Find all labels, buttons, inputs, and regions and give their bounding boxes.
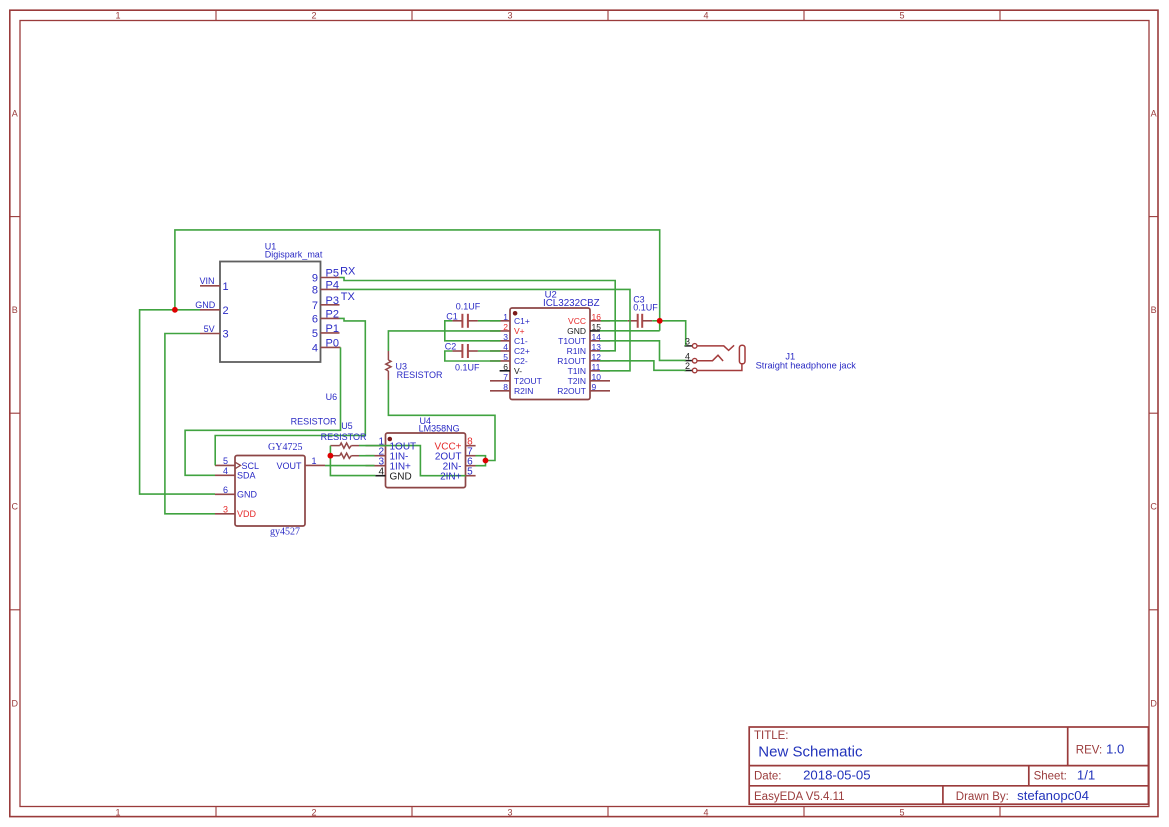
junction U4 2OUT/2IN- feedback — [483, 458, 489, 464]
GY4725 pins — [215, 465, 325, 513]
svg-text:5: 5 — [503, 352, 508, 362]
U3 symbol — [386, 351, 391, 380]
svg-text:1: 1 — [115, 807, 120, 817]
svg-text:B: B — [1151, 305, 1157, 315]
svg-text:3: 3 — [507, 807, 512, 817]
svg-text:V-: V- — [514, 366, 522, 376]
svg-text:VOUT: VOUT — [276, 461, 302, 471]
svg-text:C1+: C1+ — [514, 316, 530, 326]
svg-text:B: B — [12, 305, 18, 315]
svg-text:4: 4 — [503, 342, 508, 352]
svg-text:5: 5 — [223, 456, 228, 466]
U4 pins — [366, 446, 476, 476]
svg-text:5: 5 — [312, 328, 318, 340]
J1 tip — [739, 345, 745, 364]
svg-text:6: 6 — [312, 313, 318, 325]
wire U2 pin15 GND to vertical — [600, 330, 660, 332]
svg-text:V+: V+ — [514, 326, 525, 336]
pin 6 V- black stub — [500, 370, 510, 372]
svg-text:Straight headphone jack: Straight headphone jack — [756, 361, 857, 371]
svg-text:4: 4 — [312, 342, 318, 354]
U6 symbol — [330, 443, 359, 448]
svg-text:P3: P3 — [326, 295, 339, 307]
svg-text:VCC: VCC — [568, 316, 586, 326]
U4 reference designator and part name — [419, 416, 460, 433]
IC GY4725 — [215, 442, 325, 538]
svg-text:1OUT: 1OUT — [390, 441, 417, 452]
U2 reference designator and part name — [543, 289, 600, 309]
svg-text:RESISTOR: RESISTOR — [397, 370, 443, 380]
svg-text:GND: GND — [390, 471, 412, 482]
wire U6 right lead through U4 to 2IN+ pin5 — [359, 446, 466, 476]
svg-text:16: 16 — [592, 312, 602, 322]
U2 pins — [490, 321, 610, 391]
IC U2 ICL3232CBZ — [490, 289, 610, 399]
svg-text:8: 8 — [503, 382, 508, 392]
wire RX: U1 pin9 to U2 R1IN — [340, 278, 616, 351]
svg-text:A: A — [12, 109, 18, 119]
svg-text:ICL3232CBZ: ICL3232CBZ — [543, 298, 600, 309]
svg-text:4: 4 — [378, 467, 384, 478]
svg-text:P2: P2 — [326, 308, 339, 320]
svg-text:12: 12 — [592, 352, 602, 362]
U1 pins 1,2,3 (VIN,GND,5V) and 9,8,7,6,5,4 (P5,P4,P3,P2,P1,P0) — [200, 278, 341, 348]
svg-text:GND: GND — [567, 326, 586, 336]
svg-text:VIN: VIN — [199, 276, 214, 286]
junction U5/U6 node — [328, 453, 334, 459]
svg-text:5: 5 — [899, 10, 904, 20]
svg-text:U5: U5 — [341, 421, 353, 431]
svg-text:1: 1 — [503, 312, 508, 322]
svg-text:T2IN: T2IN — [568, 376, 586, 386]
svg-text:P0: P0 — [326, 337, 339, 349]
svg-text:T2OUT: T2OUT — [514, 376, 542, 386]
svg-text:GND: GND — [237, 490, 258, 500]
svg-text:8: 8 — [312, 284, 318, 296]
svg-text:15: 15 — [592, 322, 602, 332]
svg-text:C2-: C2- — [514, 356, 528, 366]
J1 pin leads (black) — [685, 346, 693, 371]
svg-text:9: 9 — [592, 382, 597, 392]
svg-text:2: 2 — [503, 322, 508, 332]
svg-text:10: 10 — [592, 372, 602, 382]
wire U3 resistor bottom to U4 pins 7/6 bracket — [388, 380, 495, 461]
junction GND at U1 pin2 — [172, 307, 178, 313]
U1 body — [220, 262, 321, 363]
resistor U3 — [386, 351, 443, 380]
svg-text:C: C — [11, 502, 18, 512]
capacitor C2 0.1UF — [445, 341, 480, 372]
wire U5 right lead to 1IN- pin2 — [359, 455, 375, 457]
svg-text:C2: C2 — [445, 341, 457, 351]
U5 symbol — [330, 453, 359, 458]
svg-text:1: 1 — [223, 281, 229, 293]
svg-text:11: 11 — [592, 362, 601, 372]
svg-text:4: 4 — [685, 351, 690, 361]
U4 pin1 marker dot — [388, 437, 393, 442]
U1 reference designator and part name — [265, 241, 323, 259]
svg-text:R2IN: R2IN — [514, 386, 533, 396]
svg-text:1.0: 1.0 — [1106, 741, 1124, 756]
wire GND junction to J1 pin3 — [660, 321, 686, 346]
svg-text:2: 2 — [311, 807, 316, 817]
svg-text:2IN+: 2IN+ — [440, 471, 462, 482]
wire P2 to GY4725 SCL — [215, 318, 365, 465]
svg-text:T1IN: T1IN — [568, 366, 586, 376]
SCL clock marker — [236, 462, 241, 468]
J1 contacts — [697, 345, 742, 370]
svg-text:13: 13 — [592, 342, 602, 352]
svg-text:C1-: C1- — [514, 336, 528, 346]
svg-text:6: 6 — [503, 362, 508, 372]
capacitor C1 0.1UF — [446, 301, 480, 327]
svg-text:R1OUT: R1OUT — [557, 356, 586, 366]
svg-text:1/1: 1/1 — [1077, 768, 1095, 783]
op-amp U4 LM358NG — [366, 416, 476, 487]
svg-text:Sheet:: Sheet: — [1034, 771, 1067, 783]
wire V+ pin2 to U3 resistor top — [388, 331, 500, 351]
svg-text:R1IN: R1IN — [567, 346, 586, 356]
wire T1OUT to J1 pin4 — [600, 341, 686, 361]
svg-text:4: 4 — [703, 10, 708, 20]
svg-text:Date:: Date: — [754, 771, 782, 783]
svg-text:3: 3 — [685, 337, 690, 347]
svg-text:RESISTOR: RESISTOR — [291, 417, 337, 427]
wire C2 right lead to pin4 — [478, 350, 501, 352]
wire U6/U5 left vertical to U4 GND pin4 — [330, 446, 375, 476]
wire P0 to GY4725 SDA — [185, 347, 340, 475]
wire C2 left lead to C2- pin5 — [445, 351, 501, 361]
svg-text:2: 2 — [311, 10, 316, 20]
svg-text:0.1UF: 0.1UF — [455, 362, 480, 372]
resistor U6 — [291, 392, 359, 448]
resistor U5 — [330, 421, 359, 458]
U2 pin numbers and pin names — [503, 312, 601, 396]
svg-text:U6: U6 — [326, 392, 338, 402]
svg-text:6: 6 — [223, 485, 228, 495]
U4 pin4 GND black stub — [375, 475, 385, 477]
svg-text:Drawn By:: Drawn By: — [956, 791, 1009, 803]
TITLE BLOCK — [749, 727, 1148, 804]
svg-text:5: 5 — [899, 807, 904, 817]
svg-text:3: 3 — [223, 329, 229, 341]
svg-text:REV:: REV: — [1076, 744, 1102, 756]
wire C1 right lead to pin1 — [478, 320, 501, 322]
wire C3 leads — [601, 320, 628, 322]
svg-text:1: 1 — [115, 10, 120, 20]
J1 pin circles — [692, 344, 697, 373]
wire 5V: U1 pin3 to GY4725 VDD — [165, 334, 215, 514]
svg-text:C2+: C2+ — [514, 346, 530, 356]
svg-text:VDD: VDD — [237, 509, 257, 519]
svg-text:7: 7 — [503, 372, 508, 382]
svg-text:0.1UF: 0.1UF — [456, 301, 481, 311]
wire TX: U1 pin8 to U2 T1IN — [340, 289, 631, 370]
svg-text:5V: 5V — [204, 324, 215, 334]
IC U1 Digispark_mat — [200, 241, 341, 362]
WIRES — [140, 230, 686, 514]
svg-text:2: 2 — [685, 361, 690, 371]
svg-text:A: A — [1151, 109, 1157, 119]
C1 leads — [452, 320, 478, 322]
U2 pin1 marker dot — [513, 311, 518, 316]
svg-text:2018-05-05: 2018-05-05 — [803, 768, 870, 783]
connector J1 straight headphone jack — [685, 344, 857, 373]
svg-text:R2OUT: R2OUT — [557, 386, 586, 396]
C2 plates — [462, 344, 468, 358]
C1 plates — [462, 314, 468, 328]
svg-text:LM358NG: LM358NG — [419, 423, 460, 433]
GY4725 pin numbers and pin names — [223, 456, 317, 519]
C3 plates — [638, 314, 643, 328]
svg-text:RESISTOR: RESISTOR — [321, 432, 367, 442]
svg-text:2: 2 — [223, 305, 229, 317]
svg-text:3: 3 — [503, 332, 508, 342]
wire GY4725 VOUT to U4 1IN+ — [325, 465, 375, 467]
GY4725 body — [235, 456, 305, 527]
svg-text:D: D — [1150, 698, 1157, 708]
J1 pin numbers — [685, 351, 690, 371]
svg-text:9: 9 — [312, 273, 318, 285]
C2 leads — [452, 350, 478, 352]
svg-text:7: 7 — [312, 300, 318, 312]
svg-text:SDA: SDA — [237, 471, 256, 481]
svg-text:4: 4 — [703, 807, 708, 817]
svg-text:0.1UF: 0.1UF — [633, 302, 658, 312]
svg-text:RX: RX — [340, 266, 356, 278]
wire R1OUT to J1 pin2 — [600, 361, 686, 371]
junction dots — [172, 307, 663, 464]
svg-text:D: D — [11, 698, 18, 708]
svg-text:P4: P4 — [326, 279, 339, 291]
pin 15 GND black stub — [590, 330, 600, 332]
svg-text:3: 3 — [223, 504, 228, 514]
capacitor C3 0.1UF — [628, 294, 659, 328]
svg-text:GND: GND — [195, 300, 216, 310]
svg-text:P1: P1 — [326, 323, 339, 335]
U2 body — [510, 308, 590, 400]
wire U4 pin7/pin6 bracket — [476, 456, 486, 466]
svg-text:stefanopc04: stefanopc04 — [1017, 788, 1089, 803]
C3 leads — [628, 320, 653, 322]
svg-text:SCL: SCL — [242, 461, 260, 471]
wire C1 left lead to C1- pin3 — [445, 321, 501, 341]
svg-text:gy4527: gy4527 — [270, 527, 300, 538]
svg-text:Digispark_mat: Digispark_mat — [265, 250, 323, 260]
svg-text:TX: TX — [341, 291, 356, 303]
junction VCC/C3/GND — [657, 318, 663, 324]
wire GND net left: junction to U1 pin2 and down-left to GY4725 GND — [140, 310, 215, 494]
COMPONENTS — [195, 241, 856, 537]
svg-text:4: 4 — [223, 466, 228, 476]
svg-text:New Schematic: New Schematic — [758, 744, 863, 761]
U1 pin numbers and pin names — [223, 268, 339, 355]
svg-text:1: 1 — [312, 456, 317, 466]
svg-text:14: 14 — [592, 332, 602, 342]
svg-text:EasyEDA V5.4.11: EasyEDA V5.4.11 — [754, 791, 845, 803]
svg-text:GY4725: GY4725 — [268, 442, 302, 453]
U4 pin numbers and pin names — [378, 437, 473, 478]
svg-text:5: 5 — [467, 467, 473, 478]
svg-text:3: 3 — [507, 10, 512, 20]
U4 body — [386, 433, 466, 488]
svg-text:T1OUT: T1OUT — [558, 336, 586, 346]
svg-text:P5: P5 — [326, 268, 339, 280]
svg-text:TITLE:: TITLE: — [754, 730, 789, 742]
svg-text:C: C — [1150, 502, 1157, 512]
wire GND net top loop: junction up, across top, down to C3 junction — [175, 230, 660, 331]
